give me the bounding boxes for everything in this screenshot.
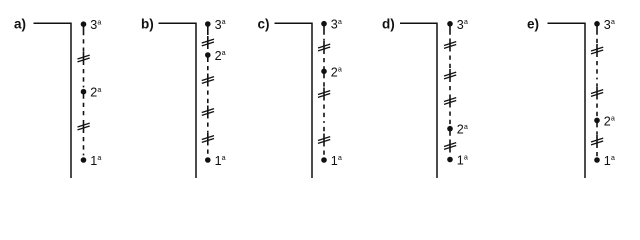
node 2ª (d) [447, 126, 453, 132]
break mark e1 [591, 47, 603, 54]
break mark b2 [202, 77, 214, 84]
bracket d: horizontal + vertical reference line [400, 23, 437, 178]
svg-text:2a: 2a [90, 85, 101, 100]
svg-text:c): c) [258, 17, 270, 32]
node 3ª (b) [205, 21, 211, 27]
break mark b1 [202, 39, 214, 46]
node 2ª (b) [205, 52, 211, 58]
dash-dot axis line e [596, 24, 598, 160]
svg-text:a): a) [14, 17, 26, 32]
dash-dot axis line c [323, 24, 325, 160]
break mark d4 [444, 143, 456, 150]
node 1ª (b) [205, 157, 211, 163]
break mark d1 [444, 42, 456, 49]
break mark b3 [202, 109, 214, 116]
node 3ª (d) [447, 21, 453, 27]
break mark c2 [318, 91, 330, 98]
svg-text:3a: 3a [604, 17, 615, 32]
dash-dot axis line d [449, 24, 451, 160]
break mark d2 [444, 72, 456, 79]
svg-text:3a: 3a [331, 17, 342, 32]
break mark d3 [444, 98, 456, 105]
svg-text:2a: 2a [457, 122, 468, 137]
node 2ª (a) [81, 89, 87, 95]
break mark a2 [78, 123, 90, 130]
node 3ª (a) [81, 21, 87, 27]
break mark c3 [318, 137, 330, 144]
svg-text:2a: 2a [331, 64, 342, 79]
break mark e3 [591, 138, 603, 145]
dash-dot axis line b [207, 24, 209, 160]
bracket c: horizontal + vertical reference line [275, 23, 313, 178]
svg-text:1a: 1a [457, 153, 468, 168]
svg-text:2a: 2a [215, 48, 226, 63]
svg-text:1a: 1a [604, 153, 615, 168]
break mark b4 [202, 136, 214, 143]
break mark e2 [591, 90, 603, 97]
svg-text:3a: 3a [215, 17, 226, 32]
node 2ª (e) [594, 118, 600, 124]
node 1ª (d) [447, 157, 453, 163]
bracket e: horizontal + vertical reference line [548, 23, 586, 178]
svg-text:2a: 2a [604, 114, 615, 129]
node 1ª (c) [321, 157, 327, 163]
svg-text:1a: 1a [215, 153, 226, 168]
node 3ª (e) [594, 21, 600, 27]
svg-text:3a: 3a [90, 17, 101, 32]
svg-text:1a: 1a [331, 153, 342, 168]
bracket a: horizontal + vertical reference line [34, 23, 72, 178]
node 3ª (c) [321, 21, 327, 27]
dash-dot axis line a [83, 24, 85, 160]
break mark c1 [318, 44, 330, 51]
break mark a1 [78, 55, 90, 62]
svg-text:d): d) [382, 17, 395, 32]
svg-text:1a: 1a [90, 153, 101, 168]
svg-text:e): e) [527, 17, 539, 32]
svg-text:b): b) [141, 17, 154, 32]
bracket b: horizontal + vertical reference line [159, 23, 197, 178]
node 2ª (c) [321, 69, 327, 75]
node 1ª (a) [81, 157, 87, 163]
node 1ª (e) [594, 157, 600, 163]
svg-text:3a: 3a [457, 17, 468, 32]
